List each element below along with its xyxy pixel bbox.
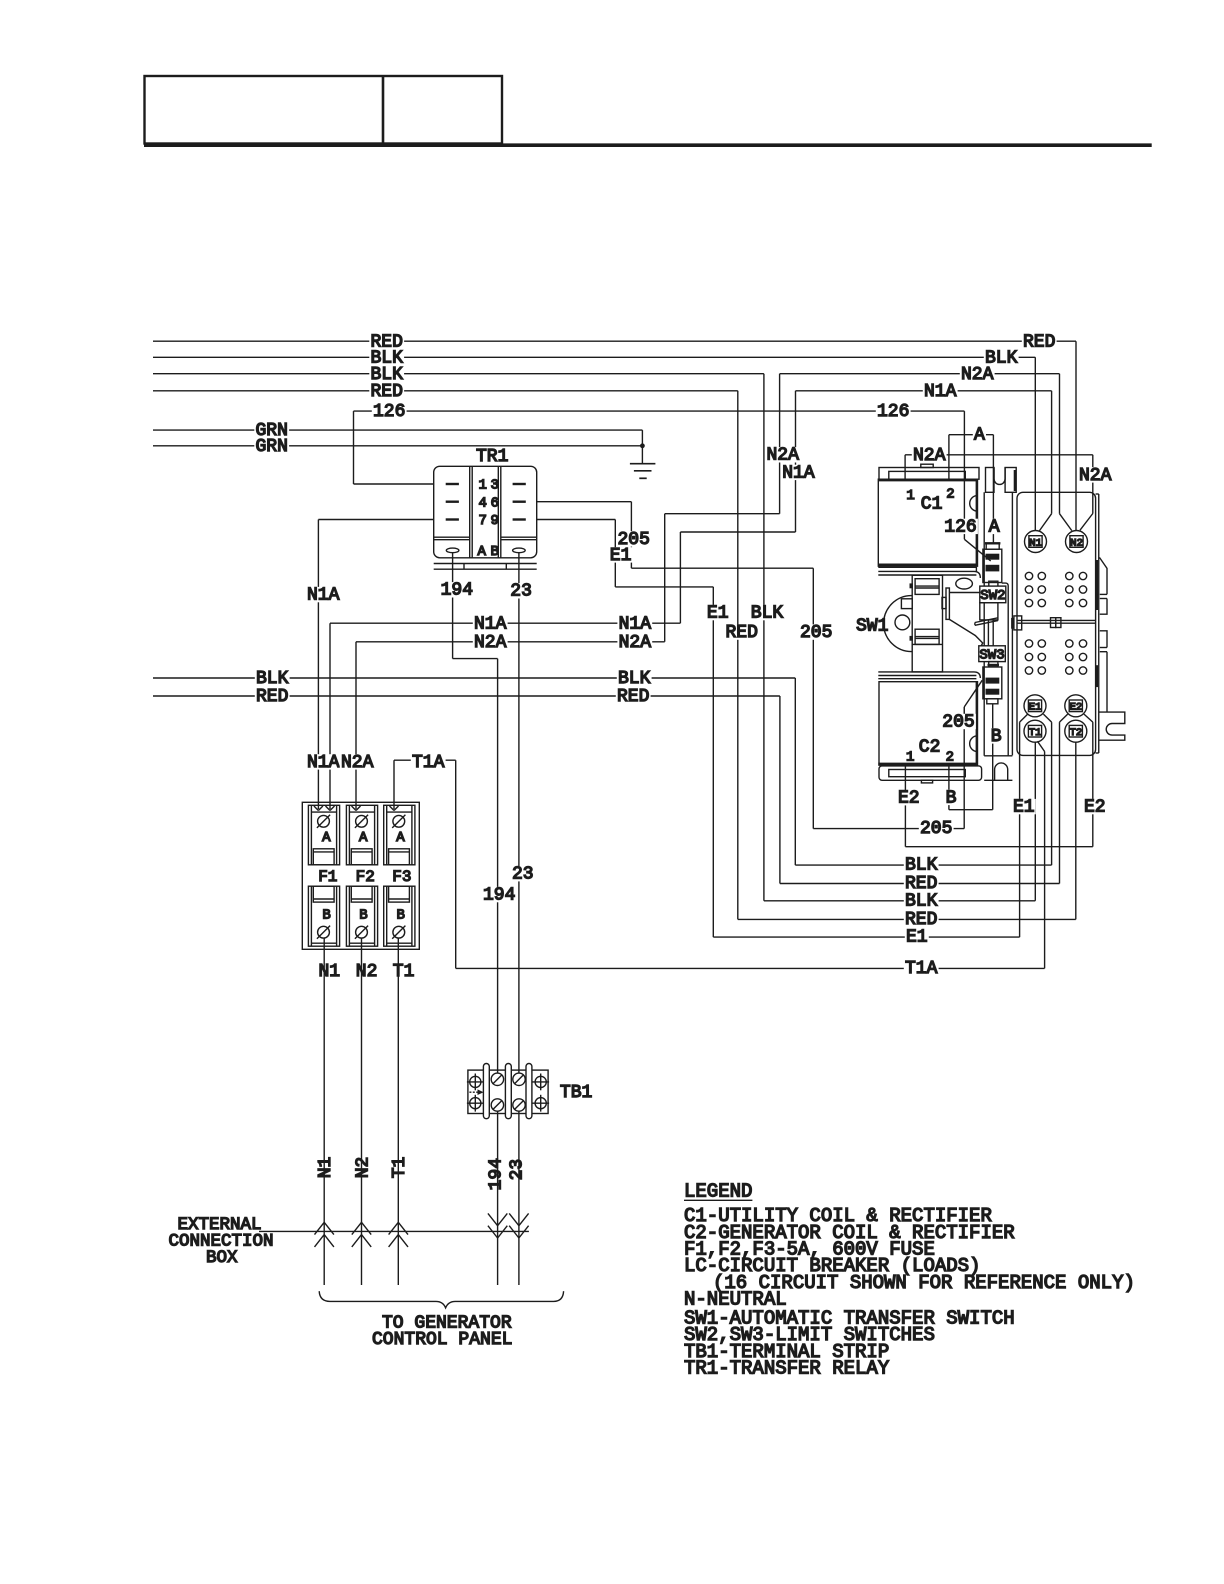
wire BLK lower to T1 (764, 742, 1035, 901)
svg-text:7: 7 (479, 513, 487, 529)
fuse F3 (384, 805, 415, 946)
svg-text:TR1: TR1 (476, 447, 508, 467)
svg-text:RED: RED (371, 382, 403, 402)
svg-text:T1A: T1A (905, 959, 938, 979)
svg-text:A: A (989, 517, 1000, 537)
svg-text:E1: E1 (1029, 702, 1042, 714)
junction dot GRN (640, 443, 645, 448)
svg-text:194: 194 (486, 1158, 506, 1190)
fuse block outline (302, 802, 419, 949)
wire RED middle (153, 696, 780, 884)
wire 23 from TR1 contact B (518, 553, 520, 1285)
svg-text:B: B (946, 788, 957, 808)
limit switch SW3 (979, 646, 1006, 662)
LC breaker pole circles (1025, 572, 1086, 674)
LC black edge marks (1012, 470, 1096, 687)
wire B from C2 pin2 to SW3 plunger (949, 704, 993, 810)
wire RED lower to E2 side (780, 714, 1068, 883)
svg-text:23: 23 (508, 1159, 528, 1181)
TB1 corner screws (467, 1074, 549, 1112)
lever shelf (949, 592, 979, 594)
svg-text:A: A (478, 544, 487, 560)
svg-text:N1: N1 (1029, 537, 1042, 549)
TR1 contact ovals A B (446, 548, 459, 553)
svg-text:SW1: SW1 (856, 617, 888, 637)
svg-text:1: 1 (906, 749, 914, 765)
svg-text:N2A: N2A (961, 365, 994, 385)
wire labels top-right (1022, 332, 1057, 352)
svg-text:194: 194 (441, 581, 473, 601)
fuse F2 (346, 805, 377, 946)
TB1 polarity arrow (469, 1089, 483, 1095)
svg-text:205: 205 (942, 712, 974, 732)
circuit breaker LC body (1012, 492, 1098, 755)
svg-text:BOX: BOX (206, 1248, 238, 1268)
svg-text:B: B (322, 908, 330, 924)
terminal strip TB1 (468, 1064, 548, 1119)
svg-text:N1A: N1A (307, 753, 340, 773)
lever diagonal link (949, 619, 982, 646)
svg-text:23: 23 (512, 865, 534, 885)
brace to generator control panel (319, 1291, 563, 1308)
transfer switch SW1 armature (901, 575, 942, 672)
slanted link plate (975, 618, 998, 626)
wire RED top (utility) (153, 341, 1076, 531)
mounting bracket with U notch (986, 468, 1017, 493)
wire 205 from TR1 pin 6 (537, 502, 983, 829)
wire RED left fourth line (153, 391, 738, 920)
svg-text:126: 126 (373, 402, 405, 422)
svg-text:B: B (991, 727, 1002, 747)
svg-text:N2: N2 (353, 1157, 373, 1179)
svg-text:N1A: N1A (307, 586, 340, 606)
fuse F1 (308, 805, 339, 946)
wire N1A middle run (330, 532, 796, 809)
switch SW1 pivot circle (895, 615, 910, 630)
switch SW1 pivot arc (884, 596, 912, 652)
svg-text:194: 194 (483, 886, 515, 906)
wire T1A (394, 741, 1045, 968)
terminal T1 (1024, 720, 1046, 742)
svg-text:RED: RED (617, 687, 649, 707)
svg-text:4: 4 (479, 495, 487, 511)
svg-text:BLK: BLK (751, 604, 784, 624)
svg-text:1: 1 (906, 488, 914, 504)
wire labels lower runs (511, 865, 535, 885)
wire BLK lower to E1 side (795, 714, 1051, 865)
connector chevrons T1 (up) (389, 1222, 408, 1247)
svg-text:N1A: N1A (619, 614, 652, 634)
svg-text:E1: E1 (707, 604, 729, 624)
svg-text:N2A: N2A (474, 633, 507, 653)
transfer relay TR1 body (434, 466, 537, 569)
limit switch SW2 (980, 586, 1006, 620)
svg-text:A: A (974, 426, 985, 446)
wire BLK middle (153, 678, 795, 865)
svg-text:TR1-TRANSFER RELAY: TR1-TRANSFER RELAY (684, 1358, 890, 1380)
svg-text:A: A (396, 830, 405, 846)
terminal E2 (1065, 695, 1087, 717)
svg-text:GRN: GRN (256, 437, 288, 457)
TB1 wire screws (491, 1073, 525, 1111)
svg-text:126: 126 (944, 517, 976, 537)
roller oval (956, 578, 973, 589)
svg-text:N2A: N2A (619, 633, 652, 653)
solenoid plunger lower (SW3) (983, 662, 1002, 704)
wire 205 inside C2 (963, 707, 965, 728)
svg-text:C2: C2 (919, 737, 941, 757)
lever bar (942, 588, 949, 619)
wire N2A middle run (356, 514, 780, 809)
svg-text:A: A (322, 830, 331, 846)
svg-text:N1A: N1A (924, 382, 957, 402)
svg-text:E2: E2 (1084, 798, 1106, 818)
svg-text:F3: F3 (392, 868, 411, 886)
svg-text:T1: T1 (1029, 727, 1042, 739)
wire N2A right third line (780, 374, 1072, 531)
svg-text:3: 3 (491, 478, 499, 494)
wire N2 below F2 (361, 938, 363, 1286)
svg-text:A: A (359, 830, 368, 846)
wire 194 from TR1 contact A (453, 553, 498, 1285)
wire labels middle column (616, 530, 651, 550)
wire T1 below F3 (397, 938, 399, 1286)
svg-text:E2: E2 (898, 789, 920, 809)
svg-text:TB1: TB1 (560, 1083, 592, 1103)
coil area labels (943, 517, 978, 537)
svg-text:T1A: T1A (412, 753, 445, 773)
svg-text:9: 9 (491, 513, 499, 529)
svg-text:BLK: BLK (905, 856, 938, 876)
wire BLK top (utility) (153, 357, 1035, 531)
wire N1A right fourth line (796, 391, 1052, 532)
svg-text:LEGEND: LEGEND (684, 1181, 752, 1203)
svg-text:E1: E1 (610, 546, 632, 566)
connector chevrons 194 (down) (488, 1213, 507, 1238)
wire BLK left third line (153, 374, 764, 901)
svg-text:BLK: BLK (256, 669, 289, 689)
svg-text:BLK: BLK (905, 891, 938, 911)
svg-text:E1: E1 (906, 928, 928, 948)
TR1 pin wires left (318, 484, 433, 809)
connector chevrons N1 (up) (315, 1222, 334, 1247)
LC right mounting rail (1099, 558, 1125, 740)
wire labels top-left (369, 332, 404, 352)
svg-text:T1: T1 (393, 962, 415, 982)
svg-text:SW2: SW2 (980, 588, 1005, 604)
svg-text:B: B (359, 908, 367, 924)
svg-text:BLK: BLK (618, 669, 651, 689)
coil C2 (generator coil & rectifier) (878, 672, 981, 783)
svg-text:N1A: N1A (474, 614, 507, 634)
TR1 pins (dashes) (446, 484, 526, 520)
svg-text:RED: RED (726, 623, 758, 643)
svg-text:N1A: N1A (782, 463, 815, 483)
wire N1 below F1 (323, 938, 325, 1286)
terminal T2 (1065, 720, 1087, 742)
svg-text:F2: F2 (356, 868, 375, 886)
wire N2A from C1 pin1 (905, 455, 1093, 530)
svg-text:N2A: N2A (913, 446, 946, 466)
twin actuator rods (988, 620, 993, 646)
title block frame (144, 76, 1152, 145)
solenoid plunger upper (SW2) (983, 543, 1002, 586)
svg-text:6: 6 (491, 495, 499, 511)
svg-text:E1: E1 (1013, 798, 1035, 818)
terminal N2 (1066, 531, 1088, 553)
svg-text:T2: T2 (1070, 727, 1083, 739)
svg-text:C1: C1 (921, 494, 943, 514)
wire A from C1 pin2 (949, 435, 994, 544)
svg-text:B: B (397, 908, 405, 924)
wire GRN lower (153, 445, 642, 447)
svg-text:205: 205 (920, 819, 952, 839)
svg-text:CONTROL PANEL: CONTROL PANEL (372, 1330, 512, 1350)
svg-text:1: 1 (479, 478, 487, 494)
svg-text:E2: E2 (1070, 702, 1083, 714)
ground symbol (630, 464, 656, 479)
terminal E1 (1024, 695, 1046, 717)
svg-text:N2: N2 (356, 962, 378, 982)
wire labels on N2A/N1A verticals (765, 446, 800, 466)
external connection box line (259, 1230, 529, 1232)
coil C1 (utility coil & rectifier) (878, 464, 980, 578)
svg-text:N2A: N2A (341, 753, 374, 773)
wire 126 (354, 411, 991, 561)
terminal N1 (1025, 531, 1047, 553)
svg-text:RED: RED (256, 687, 288, 707)
frame rails (984, 492, 1012, 780)
svg-text:23: 23 (510, 582, 532, 602)
svg-text:N1: N1 (319, 962, 341, 982)
wire RED lower to T2 (738, 742, 1076, 919)
svg-text:T1: T1 (390, 1157, 410, 1179)
svg-text:N1: N1 (316, 1157, 336, 1179)
connector chevrons N2 (up) (352, 1222, 371, 1247)
svg-text:N2A: N2A (1079, 466, 1112, 486)
wire GRN upper (153, 430, 642, 464)
svg-text:B: B (491, 544, 499, 560)
wire E2 from C2 pin1 (905, 714, 1092, 847)
svg-text:RED: RED (1023, 332, 1055, 352)
svg-text:SW3: SW3 (979, 648, 1004, 664)
wire E1 from TR1 pin 9 (537, 520, 1028, 938)
svg-text:F1: F1 (318, 868, 337, 886)
svg-text:2: 2 (946, 487, 954, 503)
connector chevrons 23 (down) (509, 1213, 528, 1238)
svg-text:126: 126 (877, 402, 909, 422)
svg-text:205: 205 (800, 623, 832, 643)
svg-text:2: 2 (946, 749, 954, 765)
svg-text:N2: N2 (1070, 537, 1083, 549)
